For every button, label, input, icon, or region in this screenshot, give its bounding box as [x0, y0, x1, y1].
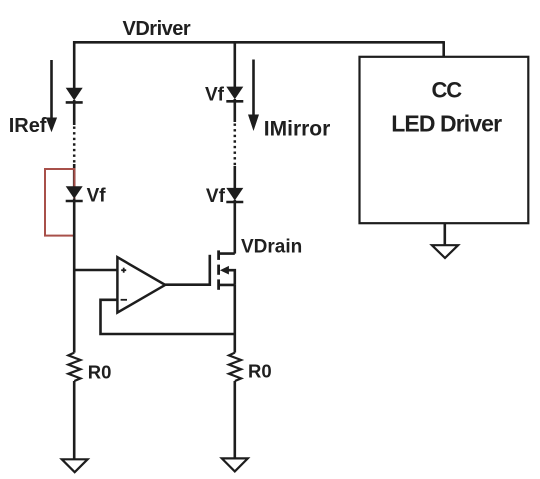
- wire middle rail upper: [234, 41, 237, 88]
- wire left R0 to ground: [73, 381, 76, 459]
- transistor Q1 NMOS: [210, 250, 235, 289]
- svg-text:Vf: Vf: [206, 186, 226, 207]
- diode D4 mirror Vf: [226, 188, 243, 202]
- wire left rail middle to R0: [73, 199, 76, 353]
- svg-text:CC: CC: [432, 77, 463, 102]
- svg-text:VDrain: VDrain: [241, 236, 302, 257]
- op-amp U1: [117, 257, 165, 312]
- svg-text:IRef: IRef: [9, 115, 47, 137]
- diode D3 mirror top: [226, 87, 243, 102]
- svg-text:Vf: Vf: [87, 185, 107, 206]
- wire middle rail above D4: [234, 166, 237, 189]
- wire left rail below D1: [73, 100, 76, 125]
- resistor R0 left: [68, 353, 80, 381]
- current arrow IRef: [46, 60, 57, 132]
- svg-text:IMirror: IMirror: [264, 117, 331, 140]
- wire source rail to R0: [234, 285, 237, 353]
- wire middle rail dotted continuation: [234, 124, 237, 167]
- wire supply drop to CC LED driver: [442, 41, 445, 57]
- wire driver ground stub: [443, 223, 446, 245]
- ground middle: [222, 458, 248, 471]
- ground CC LED driver: [432, 245, 458, 258]
- svg-text:R0: R0: [248, 361, 272, 382]
- current arrow IMirror: [248, 60, 259, 132]
- wire op-amp output to gate: [165, 283, 210, 286]
- wire drain rail: [234, 200, 237, 254]
- block CC LED Driver: [360, 57, 529, 223]
- wire feedback from source to op-amp minus input: [101, 300, 235, 334]
- wire middle rail below D3: [234, 99, 237, 122]
- diode D1 left string top: [66, 88, 83, 103]
- wire left rail dotted continuation: [73, 127, 76, 165]
- wire right R0 to ground: [234, 381, 237, 458]
- wire op-amp plus input tap: [73, 269, 117, 272]
- wire left rail above D2: [73, 164, 76, 187]
- svg-text:VDriver: VDriver: [123, 18, 191, 40]
- ground left: [62, 459, 88, 472]
- svg-text:R0: R0: [88, 361, 112, 382]
- red highlight box around sense diode: [45, 169, 74, 236]
- diode D2 left Vf: [66, 186, 83, 201]
- svg-text:Vf: Vf: [205, 85, 225, 106]
- wire VDriver top rail: [73, 41, 444, 44]
- svg-text:LED Driver: LED Driver: [391, 110, 502, 136]
- wire left rail upper: [73, 41, 76, 89]
- resistor R0 right: [229, 353, 241, 381]
